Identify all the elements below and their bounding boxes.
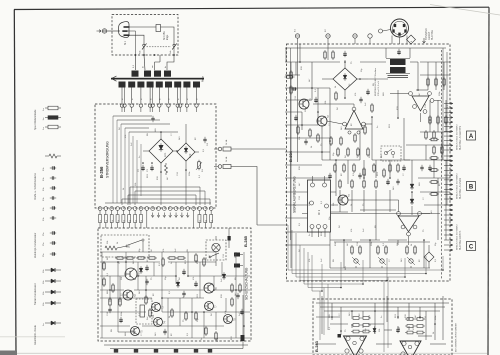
wire B-234 <box>397 240 399 245</box>
wire B-285 <box>117 262 119 332</box>
svg-text:230 mV 1,2 mV: 230 mV 1,2 mV <box>378 80 380 96</box>
junction B-283 <box>351 310 353 312</box>
terminal strip row 1 block 1 <box>132 71 139 77</box>
resistor input stage <box>354 135 356 141</box>
op-amp IC4 left channel <box>344 336 367 355</box>
transformer leads <box>386 58 390 60</box>
wire B-283 <box>425 311 427 340</box>
svg-text:Draht- u. Schichtwiderst.: Draht- u. Schichtwiderst. <box>34 172 37 200</box>
terminal circle mains <box>102 29 106 33</box>
bus rail wire 6 <box>308 252 341 288</box>
wire terminal strip row 2 into power supply board <box>168 88 170 104</box>
connector stub wire <box>444 174 452 176</box>
legend fusible resistor symbol 3 <box>45 126 48 128</box>
resistor under top edge <box>332 52 334 58</box>
junction B-285 <box>109 289 111 291</box>
wire fan segment B-356 <box>136 140 138 203</box>
transistor T4 <box>154 318 163 327</box>
wire from bottom pin downward <box>122 210 124 228</box>
IC1 pin <box>311 183 315 187</box>
DIN connector pin <box>404 29 406 32</box>
bus rail wire 5 <box>304 248 363 284</box>
diamond junction lower right <box>424 252 434 262</box>
resistor right column <box>433 132 435 138</box>
wire B-285 <box>225 298 227 312</box>
resistor R20 <box>231 285 233 291</box>
arrow symbol below DIN <box>423 38 426 43</box>
legend electrolytic capacitor symbol 3 <box>51 252 53 255</box>
resistor R21 <box>239 285 241 291</box>
wire B-285 <box>100 311 146 313</box>
diode left channel <box>373 328 376 331</box>
transistor T12 <box>338 195 348 205</box>
input terminal 3 <box>353 34 357 38</box>
capacitor C14 <box>194 282 197 284</box>
svg-text:BC: BC <box>359 313 361 316</box>
wire B-234 <box>321 125 323 160</box>
junction B-234 <box>363 177 365 179</box>
pin on power supply board bottom edge <box>180 207 184 211</box>
wire B-234 <box>420 74 450 76</box>
legend fusible resistor symbol 2 <box>45 117 48 119</box>
junction B-234 <box>344 61 346 63</box>
wire B-234 <box>285 244 330 246</box>
wire label box below pin <box>198 215 201 223</box>
resistor right channel B-283 <box>417 318 423 321</box>
wire fan segment B-356 <box>140 144 142 196</box>
legend capacitor symbol 6 <box>51 216 53 219</box>
resistor right channel B-283 <box>407 325 413 328</box>
junction B-285 <box>137 275 139 277</box>
op-amp IC1 pointing up <box>345 111 363 130</box>
pin on power supply board bottom edge <box>98 207 102 211</box>
wire B-285 <box>125 252 127 276</box>
svg-text:1w: 1w <box>43 108 45 111</box>
IC1 pin <box>323 183 327 187</box>
input terminal 4 <box>368 34 372 38</box>
junction B-234 <box>299 61 301 63</box>
wire B-283 <box>331 303 333 320</box>
wire join to bottom pin <box>160 172 162 205</box>
wire B-234 <box>330 239 352 241</box>
wire B-285 <box>100 251 216 253</box>
wire label box below pin <box>204 215 207 223</box>
op-amp IC5 right channel <box>400 341 421 355</box>
connector stub wire <box>444 112 452 114</box>
electrolytic capacitor C3 <box>150 166 153 168</box>
capacitor right channel <box>396 328 399 330</box>
pin on power supply board top edge <box>176 104 179 107</box>
resistor R17 <box>178 257 184 259</box>
wire B-234 <box>369 240 371 268</box>
svg-text:BC: BC <box>439 183 441 186</box>
wire B-283 <box>376 343 392 345</box>
trimmer cluster 2 <box>377 247 379 253</box>
wire B-234 <box>388 239 407 241</box>
pin on power supply board top edge <box>195 104 198 107</box>
wire DIN to box <box>391 36 393 45</box>
wire from bottom pin downward <box>117 210 119 228</box>
wire rail B-356 b <box>117 119 160 121</box>
junction B-285 <box>161 297 163 299</box>
wire from bottom pin downward <box>128 210 130 228</box>
wire label box below pin <box>210 215 213 223</box>
wires around IC2 <box>410 61 418 63</box>
resistor middle B-234 <box>373 165 375 171</box>
wire B-234 <box>410 266 412 268</box>
fuse Si1 <box>156 25 161 32</box>
page border right <box>488 7 489 355</box>
wire collector rail B-356 1 <box>130 186 200 188</box>
resistor R15 <box>162 259 164 265</box>
wire B-285 <box>213 276 215 290</box>
resistor middle B-234 <box>397 165 399 171</box>
power switch Sch1a <box>143 44 145 46</box>
wire B-234 <box>299 52 301 62</box>
wire B-234 <box>285 74 300 76</box>
wire B-234 <box>375 160 377 178</box>
arrow mark below unused pin <box>186 213 189 218</box>
wire B-234 <box>389 190 391 212</box>
resistor R18 <box>195 255 197 261</box>
svg-text:Netz: Netz <box>201 76 205 82</box>
capacitor input stage <box>304 140 307 142</box>
wire B-285 <box>153 262 155 276</box>
wire B-285 <box>215 312 217 330</box>
lamp switch <box>211 253 219 257</box>
transistor T10 <box>299 99 309 109</box>
junction B-283 <box>331 316 333 318</box>
wire B-285 <box>221 262 223 276</box>
wires top area B-234 <box>285 47 446 49</box>
legend tantalum capacitor symbol 4 <box>45 302 51 304</box>
wire B-283 <box>386 296 388 322</box>
wire from bottom pin downward <box>140 210 142 228</box>
wire B-234 <box>329 88 331 160</box>
resistor left channel B-283 <box>363 317 369 320</box>
left bus vertical wires B-234 <box>297 38 299 162</box>
wire B-234 <box>418 177 450 179</box>
svg-text:A: A <box>469 134 474 140</box>
wire B-234 <box>295 62 297 75</box>
resistor right column B-234 <box>431 169 437 172</box>
junction B-234 <box>359 78 361 80</box>
connector stub wire <box>444 214 452 216</box>
resistor right channel B-283 <box>417 325 423 328</box>
connector stub wire <box>444 135 452 137</box>
wire B-283 <box>418 335 432 337</box>
junction B-234 <box>321 151 323 153</box>
resistor input stage <box>290 87 292 93</box>
svg-text:Si 0,05A: Si 0,05A <box>163 31 166 40</box>
junction B-285 <box>191 311 193 313</box>
resistor right column <box>429 117 431 123</box>
wire from bottom pin downward <box>193 210 195 228</box>
glow lamp <box>212 243 220 251</box>
bridge rectifier Gl2 <box>177 143 195 161</box>
wire join to bottom pin <box>127 195 129 205</box>
inner dashed vertical right side B-234 <box>441 50 443 280</box>
mains dashed box <box>112 15 178 56</box>
connector stub wire <box>444 179 452 181</box>
signal board B-234 dashed box <box>287 44 451 281</box>
resistor R10 <box>103 263 105 269</box>
svg-text:1w: 1w <box>43 117 45 120</box>
connector stub wire <box>444 149 452 151</box>
resistor R31 <box>215 333 217 339</box>
wire join to bottom pin <box>134 191 136 205</box>
wire B-285 <box>203 312 205 338</box>
fuse Si3 right of B-356 <box>214 166 218 168</box>
protection board B-285 dashed box <box>98 228 251 341</box>
junction B-234 <box>329 140 331 142</box>
capacitor middle B-234 <box>328 174 331 176</box>
resistor right column <box>435 79 437 85</box>
resistor left channel B-283 <box>353 324 359 327</box>
resistor R25 <box>145 297 147 303</box>
IC1 pin lead <box>324 229 326 238</box>
scan artifact faint line left margin <box>0 336 65 339</box>
transistor T8 <box>224 315 233 324</box>
junction B-234 <box>317 111 319 113</box>
connector stub wire <box>444 219 452 221</box>
arrow into mains terminal <box>97 30 102 33</box>
resistor left channel B-283 <box>363 324 369 327</box>
junction B-285 <box>145 289 147 291</box>
input terminal 1 <box>295 34 299 38</box>
legend tantalum capacitor symbol 3 <box>45 291 51 293</box>
wire terminal strip row 2 into power supply board <box>149 88 151 104</box>
pin on power supply board bottom edge <box>110 207 114 211</box>
capacitor middle B-234 <box>358 174 361 176</box>
edge connector block 2 B-285 <box>234 264 240 268</box>
resistor R26 <box>149 310 151 316</box>
resistor middle B-234 <box>343 165 345 171</box>
pin on power supply board top edge <box>185 104 188 107</box>
connector stub wire <box>444 224 452 226</box>
svg-text:BUCHSE KOPFH.: BUCHSE KOPFH. <box>459 230 462 250</box>
connector stub wire <box>444 121 452 123</box>
legend electrolytic capacitor symbol 2 <box>51 241 53 244</box>
wire label box below pin <box>104 215 107 223</box>
junction on bus <box>362 283 364 285</box>
capacitor C10 <box>145 266 148 268</box>
resistor right column B-234 <box>431 157 437 160</box>
wire B-283 <box>374 303 376 334</box>
wire B-234 <box>285 87 330 89</box>
wire from bottom pin downward <box>146 210 148 228</box>
wire B-283 <box>408 326 410 330</box>
wire B-234 <box>397 90 399 118</box>
svg-text:Rel: Rel <box>147 316 149 320</box>
wire B-234 <box>285 191 336 193</box>
wire B-285 <box>100 337 250 339</box>
wire B-285 <box>109 276 111 302</box>
electrolytic capacitor C2 <box>141 166 144 168</box>
legend capacitor symbol 4 <box>51 196 53 199</box>
resistor R19 <box>203 259 205 265</box>
vertical wire right of B-285 <box>242 295 244 335</box>
wire B-234 <box>360 61 386 63</box>
wire B-234 <box>375 190 377 240</box>
wire B-234 <box>363 160 365 178</box>
relay dashed sub-box 2 <box>136 299 152 324</box>
resistor left channel B-283 <box>353 317 359 320</box>
pin on power supply board bottom edge <box>116 207 120 211</box>
wire B-234 <box>433 160 435 178</box>
wire B-234 <box>371 117 373 160</box>
wire B-234 <box>285 177 330 179</box>
wire B-285 <box>161 252 163 312</box>
wire B-234 <box>347 160 349 184</box>
IC1 pin lead <box>318 229 320 238</box>
junction B-283 <box>397 316 399 318</box>
node mark on box bottom edge <box>173 54 175 56</box>
junction B-234 <box>423 239 425 241</box>
wire B-283 <box>351 311 353 317</box>
wire join to bottom pin <box>195 195 197 205</box>
resistor right column <box>443 79 445 85</box>
wire B-234 <box>368 78 388 80</box>
wire B-285 <box>145 276 147 298</box>
junction B-356 <box>185 169 187 171</box>
power switch Sch1b <box>173 44 175 46</box>
IC1 pin <box>317 225 321 229</box>
bus rail wire 7 <box>312 255 322 291</box>
wire terminal strip row 2 into power supply board <box>131 88 133 104</box>
diode D2 in B-285 <box>176 282 180 286</box>
extra pin on power supply board top edge <box>179 88 181 104</box>
terminal strip row 2 block 2 <box>128 82 135 88</box>
wire B-285 <box>188 275 250 277</box>
junction B-356 <box>176 150 178 152</box>
resistor right column <box>425 132 427 138</box>
wire B-283 <box>362 324 364 328</box>
capacitor C12 <box>182 270 185 272</box>
wire B-234 <box>411 192 413 197</box>
wire from bottom pin downward <box>99 210 101 228</box>
pin on power supply board bottom edge <box>139 207 143 211</box>
capacitor C4 right side <box>203 138 206 140</box>
wire B-285 <box>162 297 204 299</box>
diode D3 in B-285 <box>222 274 226 278</box>
capacitor middle B-234 <box>420 166 423 168</box>
wire from bottom pin downward <box>134 210 136 228</box>
wire B-234 <box>381 266 383 268</box>
wire terminal strip row 2 into power supply board <box>196 88 198 104</box>
IC1 pin lead <box>312 176 314 183</box>
sensitivity switch dashed sub-box <box>381 146 401 161</box>
wire B-285 <box>138 275 176 277</box>
pin on power supply board bottom edge <box>133 207 137 211</box>
wire plug bottom pin down to switch 1 <box>130 35 145 44</box>
boxed letter A <box>467 131 476 140</box>
svg-text:BRAUN GELB SCHWARZ: BRAUN GELB SCHWARZ <box>456 124 459 150</box>
trimmer cluster 1 <box>351 247 353 253</box>
svg-text:SCHUTZSCHALTUNG: SCHUTZSCHALTUNG <box>245 267 249 300</box>
wire B-234 <box>285 164 322 166</box>
relay coil <box>105 246 117 250</box>
svg-text:BC: BC <box>351 123 353 126</box>
connector stub wire <box>444 116 452 118</box>
pin on power supply board bottom edge <box>174 207 178 211</box>
riser from B-285 bottom to bottom rails <box>242 338 244 349</box>
wire B-285 <box>214 289 250 291</box>
junction B-285 <box>187 275 189 277</box>
wire collector rail B-356 2 <box>135 190 205 192</box>
wire rails top of B-283 <box>316 302 449 304</box>
legend electrolytic capacitor symbol 1 <box>51 231 53 234</box>
wire B-234 <box>424 204 450 206</box>
transistor T6 <box>204 283 214 293</box>
pin on power supply board top edge <box>139 104 142 107</box>
junction B-283 <box>340 330 342 332</box>
wire drop 2 to terminal strip <box>144 55 145 70</box>
pin on power supply board top edge <box>158 104 161 107</box>
resistor middle B-234 <box>337 149 339 155</box>
wire rail B-356 d <box>125 127 149 129</box>
scan artifact bottom-left bar <box>0 351 17 355</box>
wire fan segment B-356 <box>124 128 126 203</box>
pin on power supply board top edge <box>120 104 123 107</box>
junction B-234 <box>335 159 337 161</box>
resistor middle B-234 <box>367 149 369 155</box>
bottom bus rails <box>104 344 248 346</box>
svg-text:B-356: B-356 <box>99 166 104 178</box>
bus rail wire 3 <box>296 233 405 277</box>
wire B-234 <box>435 62 437 90</box>
connector stub wire <box>444 249 452 251</box>
lamp dashed sub-box <box>206 240 226 260</box>
wire fan segment B-356 <box>132 136 134 203</box>
wire B-234 <box>437 178 439 240</box>
pin on power supply board bottom edge <box>162 207 166 211</box>
resistor R1 with arrow <box>198 162 201 169</box>
wire B-234 <box>351 190 353 212</box>
resistor right channel B-283 <box>407 318 413 321</box>
lamp wires <box>215 252 217 266</box>
resistor under top edge <box>324 52 326 58</box>
resistor right column <box>437 117 439 123</box>
connector stub wire <box>444 103 452 105</box>
DIN connector pin <box>392 29 394 32</box>
wire B-285 <box>187 252 189 276</box>
IC1 pin circles sides <box>310 201 314 205</box>
wire B-234 <box>437 100 439 132</box>
resistor input stage <box>340 138 342 144</box>
bridge rectifier Gl3 input <box>333 68 357 90</box>
terminal strip row 1 block 4 <box>164 71 171 77</box>
wire rail B-356 a <box>113 115 152 117</box>
wire B-285 <box>162 311 250 313</box>
wire B-234 <box>322 159 360 161</box>
op-amp IC2 pointing down <box>412 96 429 111</box>
wire fan segment B-356 <box>112 116 114 203</box>
relay wires <box>117 246 127 248</box>
resistor middle B-234 <box>334 165 336 171</box>
fuse Si2 right of B-356 <box>214 148 218 150</box>
wire B-234 <box>363 190 365 212</box>
resistor R30 <box>205 328 207 334</box>
edge connector block 1 B-285 <box>234 253 240 257</box>
wire B-234 <box>403 118 405 160</box>
connector stub wire <box>444 229 452 231</box>
wire join to bottom pin <box>209 199 211 205</box>
wires bridge Gl3 <box>344 60 346 68</box>
svg-text:STROMVERSORGUNG: STROMVERSORGUNG <box>106 141 110 178</box>
wire B-283 <box>321 296 323 334</box>
connector stub wire <box>444 188 452 190</box>
